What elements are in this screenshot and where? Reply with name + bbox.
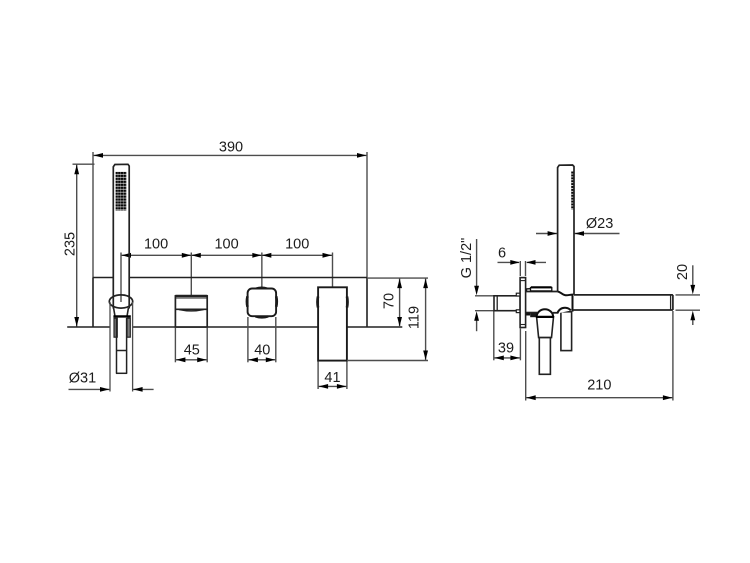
- dim 100 lines: [121, 253, 333, 303]
- dim 41: [318, 362, 347, 390]
- hose tube side: [561, 312, 572, 351]
- svg-text:G 1/2": G 1/2": [459, 238, 475, 279]
- dim 390 arrows: [94, 153, 367, 158]
- wall plate side: [520, 278, 526, 328]
- svg-text:41: 41: [324, 370, 340, 386]
- dim O23: [536, 233, 620, 235]
- spout side: [573, 295, 673, 310]
- hand shower front: holder ellipse: [109, 295, 132, 308]
- handle 2 (40) front: [247, 288, 277, 318]
- svg-text:20: 20: [675, 264, 691, 280]
- svg-text:390: 390: [219, 140, 243, 156]
- dim O31: [69, 388, 154, 390]
- body side: bottom line: [526, 312, 538, 314]
- hose boss side: [557, 308, 571, 314]
- dim 235 arrows: [74, 165, 79, 327]
- handle 3 / spout (41) front: [317, 287, 347, 360]
- dim 119: [347, 278, 428, 360]
- handle side: stem: [539, 338, 550, 375]
- hand shower front: spray hatch: [116, 172, 127, 211]
- svg-text:40: 40: [254, 343, 270, 359]
- wall screws: [516, 293, 520, 312]
- wall plate front: [67, 278, 402, 328]
- dim 39: [494, 312, 521, 361]
- handle 1 (45) front: [175, 296, 207, 327]
- svg-text:39: 39: [498, 340, 514, 356]
- dim 6: [498, 261, 547, 276]
- svg-text:Ø23: Ø23: [586, 216, 613, 232]
- dim 235 line: [73, 164, 95, 327]
- svg-text:Ø31: Ø31: [69, 371, 96, 387]
- holder outer diameter lines: [110, 302, 133, 392]
- body side: top line and neck: [526, 291, 558, 293]
- dim G 1/2": [475, 239, 494, 331]
- diverter knob: [527, 287, 552, 291]
- svg-text:100: 100: [285, 236, 309, 252]
- body side: mount step details: [526, 313, 531, 315]
- hose connector block: [113, 316, 130, 337]
- dim 40: [248, 317, 276, 362]
- svg-text:100: 100: [144, 236, 168, 252]
- hand shower front: handle: [113, 164, 129, 308]
- handle side: dome: [537, 309, 554, 317]
- dim 210: [526, 311, 673, 401]
- svg-text:6: 6: [498, 245, 506, 261]
- svg-text:235: 235: [63, 232, 79, 256]
- svg-text:45: 45: [184, 343, 200, 359]
- svg-text:119: 119: [407, 306, 423, 329]
- handle side: trapezoid: [537, 317, 554, 338]
- hose tube and end piece: [116, 318, 127, 373]
- svg-text:100: 100: [214, 236, 238, 252]
- hand shower front: taper below holder: [114, 308, 129, 316]
- hand shower side: handle: [558, 165, 574, 295]
- dim 100 arrows: [122, 253, 333, 258]
- dim 20: [676, 265, 701, 325]
- svg-text:210: 210: [587, 378, 611, 394]
- svg-text:70: 70: [382, 293, 398, 309]
- hand shower side: dotted spray line: [571, 172, 573, 210]
- dim 390 line: [93, 152, 367, 278]
- inlet pipe side: [494, 296, 520, 311]
- dim 45: [175, 328, 207, 363]
- dim 70: [367, 278, 428, 327]
